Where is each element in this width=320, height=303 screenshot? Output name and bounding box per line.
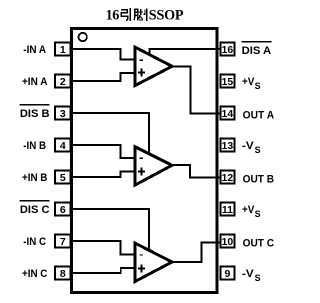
label DIS B with overline bbox=[20, 105, 50, 121]
svg-text:DIS B: DIS B bbox=[20, 108, 50, 120]
svg-text:OUT A: OUT A bbox=[243, 110, 275, 122]
label DIS C with overline bbox=[20, 201, 50, 216]
pin 14 box bbox=[220, 107, 234, 120]
wire DIS A: opamp A hypotenuse to pin16 bbox=[150, 49, 220, 54]
op-amp U1A bbox=[135, 47, 172, 86]
svg-text:+IN C: +IN C bbox=[22, 268, 48, 280]
svg-text:S: S bbox=[255, 273, 261, 283]
svg-text:+V: +V bbox=[242, 204, 255, 216]
svg-text:DIS A: DIS A bbox=[242, 45, 272, 57]
wire OUT A: opamp A output to pin14 bbox=[171, 66, 220, 113]
svg-text:6: 6 bbox=[60, 204, 66, 216]
svg-text:11: 11 bbox=[222, 204, 233, 216]
svg-text:8: 8 bbox=[60, 268, 66, 280]
svg-text:OUT C: OUT C bbox=[243, 238, 275, 250]
svg-text:-IN B: -IN B bbox=[23, 140, 46, 152]
svg-text:+IN B: +IN B bbox=[22, 172, 48, 184]
svg-text:9: 9 bbox=[224, 268, 230, 280]
op-amp U1C bbox=[135, 243, 172, 282]
svg-text:-IN C: -IN C bbox=[23, 236, 46, 248]
wire OUT B: opamp B output to pin12 bbox=[171, 165, 220, 178]
svg-text:+V: +V bbox=[242, 76, 255, 88]
pin 3 box bbox=[55, 107, 71, 120]
pin 4 box bbox=[55, 139, 71, 152]
pin 7 box bbox=[55, 235, 71, 248]
label -VS pin13 bbox=[242, 140, 261, 155]
svg-text:OUT B: OUT B bbox=[243, 174, 275, 186]
wire pin2 to +in A bbox=[70, 73, 134, 81]
pin 5 box bbox=[55, 171, 71, 184]
svg-text:S: S bbox=[255, 209, 261, 219]
svg-text:4: 4 bbox=[60, 140, 66, 152]
label -VS pin9 bbox=[242, 268, 261, 283]
wire pin7 to -in C bbox=[70, 241, 134, 255]
pin 16 box bbox=[220, 43, 234, 56]
pin 6 box bbox=[55, 203, 71, 216]
svg-text:-V: -V bbox=[242, 268, 254, 280]
svg-text:15: 15 bbox=[222, 76, 234, 88]
svg-text:14: 14 bbox=[222, 108, 234, 120]
svg-text:S: S bbox=[255, 145, 261, 155]
pin-1 indicator circle bbox=[79, 33, 87, 41]
svg-text:+IN A: +IN A bbox=[22, 76, 48, 88]
title CJK char 脚 bbox=[134, 8, 147, 20]
pin 1 box bbox=[55, 43, 71, 56]
title text 16 SSOP bbox=[106, 7, 184, 23]
pin 2 box bbox=[55, 75, 71, 88]
svg-text:-V: -V bbox=[242, 140, 254, 152]
svg-text:12: 12 bbox=[222, 172, 234, 184]
pin 15 box bbox=[220, 75, 234, 88]
svg-text:7: 7 bbox=[60, 236, 66, 248]
svg-text:5: 5 bbox=[60, 172, 66, 184]
wire pin5 to +in B bbox=[70, 172, 134, 178]
wire DIS C: pin6 to opamp C hypotenuse bbox=[70, 209, 149, 250]
wire OUT C: opamp C output to pin10 bbox=[171, 243, 220, 263]
svg-text:10: 10 bbox=[222, 236, 234, 248]
svg-text:-IN A: -IN A bbox=[23, 44, 46, 56]
svg-text:S: S bbox=[255, 81, 261, 91]
svg-text:1: 1 bbox=[60, 44, 66, 56]
pin 11 box bbox=[220, 203, 234, 216]
wire DIS B: pin3 to opamp B hypotenuse bbox=[70, 113, 149, 154]
pin 13 box bbox=[220, 139, 234, 152]
svg-text:2: 2 bbox=[60, 76, 66, 88]
pin 10 box bbox=[220, 235, 234, 248]
pin 9 box bbox=[220, 267, 234, 280]
IC body outline bbox=[72, 29, 218, 293]
pin 12 box bbox=[220, 171, 234, 184]
wire pin4 to -in B bbox=[70, 145, 134, 158]
svg-text:16: 16 bbox=[106, 7, 120, 23]
label +VS pin15 bbox=[242, 76, 261, 91]
svg-text:3: 3 bbox=[60, 108, 66, 120]
svg-text:SSOP: SSOP bbox=[149, 7, 184, 23]
op-amp U1B bbox=[135, 147, 172, 186]
svg-text:13: 13 bbox=[222, 140, 234, 152]
label +VS pin11 bbox=[242, 204, 261, 219]
pin 8 box bbox=[55, 267, 71, 280]
wire pin8 to +in C bbox=[70, 268, 134, 273]
label DIS A with overline bbox=[242, 42, 272, 57]
svg-text:DIS C: DIS C bbox=[20, 204, 50, 216]
wire pin1 to -in A bbox=[70, 49, 134, 59]
title CJK char 引 bbox=[121, 8, 130, 21]
svg-text:16: 16 bbox=[222, 44, 234, 56]
